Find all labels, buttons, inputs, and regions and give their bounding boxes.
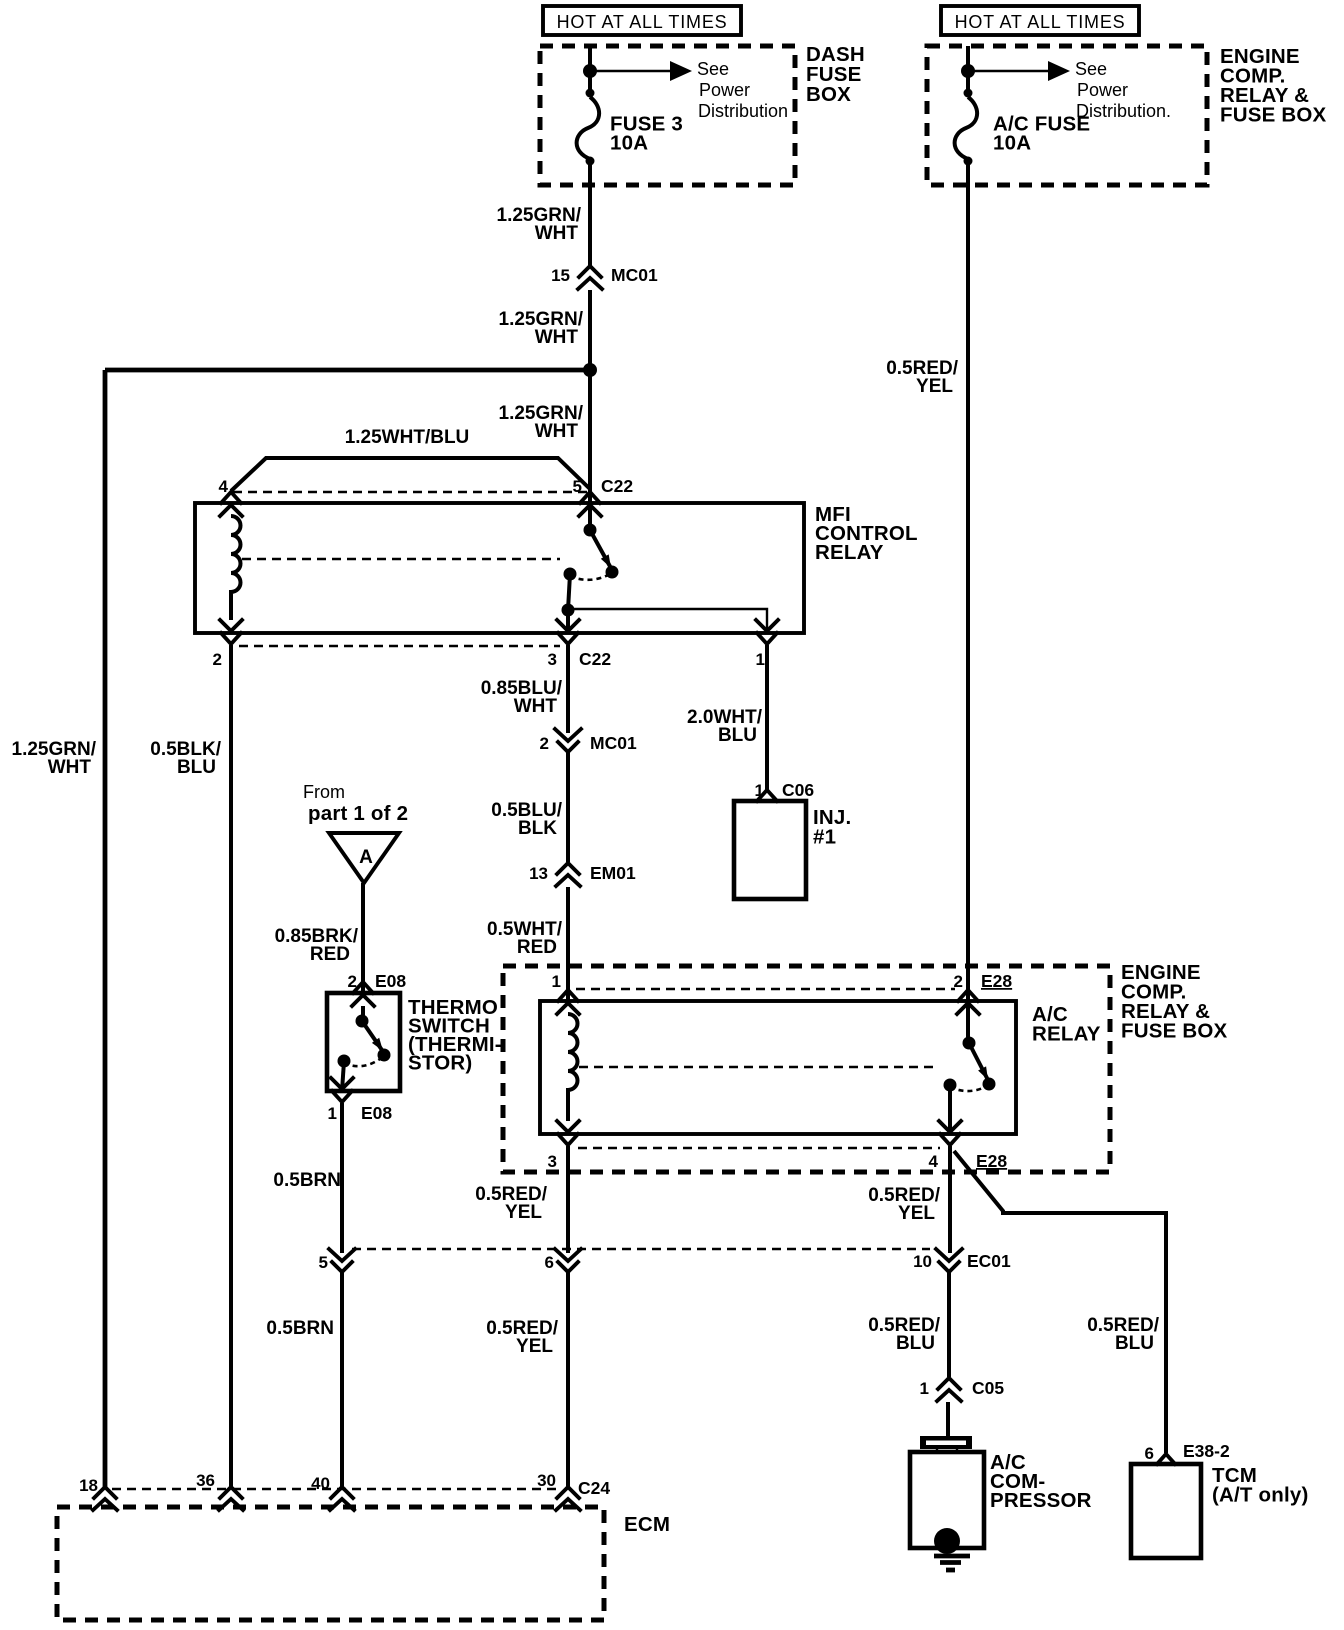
svg-text:EC01: EC01 bbox=[967, 1251, 1011, 1271]
wire 1.25WHT/BLU trapezoid from pin 4 to pin 5 bbox=[231, 458, 590, 491]
svg-text:10A: 10A bbox=[993, 132, 1031, 155]
ground bbox=[934, 1554, 970, 1559]
svg-text:18: 18 bbox=[79, 1476, 98, 1495]
svg-text:YEL: YEL bbox=[516, 1336, 553, 1357]
svg-text:HOT AT ALL TIMES: HOT AT ALL TIMES bbox=[557, 12, 728, 32]
svg-text:Power: Power bbox=[1077, 80, 1128, 100]
svg-text:E28: E28 bbox=[976, 1151, 1007, 1171]
svg-text:3: 3 bbox=[548, 1152, 557, 1171]
wire: pin 2 0.5BLK/BLU down to ECM pin 36 bbox=[229, 645, 233, 1488]
wire: dashed connector line pins 4-5 bbox=[233, 491, 587, 493]
dash fuse box (dashed) bbox=[540, 46, 795, 185]
svg-text:RELAY: RELAY bbox=[1032, 1023, 1101, 1046]
svg-text:1.25WHT/BLU: 1.25WHT/BLU bbox=[345, 427, 470, 448]
pin 3 arrow bbox=[557, 1121, 579, 1145]
wire: dashed actuation line inside relay bbox=[242, 558, 560, 560]
svg-text:E28: E28 bbox=[981, 971, 1012, 991]
label box HOT AT ALL TIMES (right) bbox=[941, 6, 1139, 35]
svg-text:FUSE BOX: FUSE BOX bbox=[1121, 1020, 1228, 1043]
wire: 0.5BRN down to connector 5 bbox=[340, 1103, 344, 1253]
wire: pin 3 0.85BLU/WHT down to MC01 bbox=[566, 645, 570, 733]
svg-text:MC01: MC01 bbox=[590, 733, 637, 753]
svg-text:BLU: BLU bbox=[1115, 1333, 1154, 1354]
wire: pin 3 0.5RED/YEL down to connector 6 bbox=[566, 1146, 570, 1253]
relay box A/C RELAY bbox=[540, 1001, 1016, 1134]
wire: 0.5RED/YEL down to ECM pin 30 bbox=[566, 1272, 570, 1488]
svg-text:E08: E08 bbox=[361, 1103, 392, 1123]
svg-text:ECM: ECM bbox=[624, 1513, 670, 1536]
wire: dashed actuation line inside relay bbox=[579, 1066, 938, 1068]
svg-text:C06: C06 bbox=[782, 780, 814, 800]
wire: battery feed into A/C fuse bbox=[966, 46, 970, 97]
svg-text:BLU: BLU bbox=[177, 757, 216, 778]
svg-text:10: 10 bbox=[913, 1252, 932, 1271]
svg-text:EM01: EM01 bbox=[590, 863, 636, 883]
svg-text:FUSE BOX: FUSE BOX bbox=[1220, 104, 1327, 127]
switch thermo contact bbox=[361, 1006, 365, 1019]
svg-text:10A: 10A bbox=[610, 132, 648, 155]
connector E38-2 pin 6 bbox=[1157, 1454, 1175, 1464]
label box HOT AT ALL TIMES (left) bbox=[543, 6, 741, 35]
svg-text:PRESSOR: PRESSOR bbox=[990, 1489, 1092, 1512]
svg-text:15: 15 bbox=[551, 266, 570, 285]
connector EC01 pin 10 bbox=[936, 1249, 962, 1272]
wire: 0.5BRN down to ECM pin 40 bbox=[340, 1272, 344, 1488]
svg-text:MC01: MC01 bbox=[611, 265, 658, 285]
svg-text:C22: C22 bbox=[579, 649, 611, 669]
connector C06 pin 1 bbox=[757, 790, 777, 801]
wire: 0.5WHT/RED down to A/C relay pin 1 bbox=[566, 887, 570, 1001]
wire: dashed connector line pins 1-2 bbox=[576, 988, 955, 990]
wire: 0.5BLU/BLK down to EM01 bbox=[566, 752, 570, 862]
svg-text:40: 40 bbox=[311, 1474, 330, 1493]
svg-text:C22: C22 bbox=[601, 476, 633, 496]
svg-text:WHT: WHT bbox=[48, 757, 92, 778]
svg-text:YEL: YEL bbox=[898, 1203, 935, 1224]
switch MFI relay contact bbox=[588, 503, 592, 528]
svg-text:From: From bbox=[303, 782, 345, 802]
svg-text:4: 4 bbox=[929, 1152, 939, 1171]
wire: pin 4 0.5RED/YEL down to EC01 bbox=[948, 1146, 952, 1253]
svg-text:13: 13 bbox=[529, 864, 548, 883]
wire: dashed connector line at ECM pins bbox=[112, 1488, 558, 1490]
svg-text:0.5BRN: 0.5BRN bbox=[273, 1170, 341, 1191]
svg-text:36: 36 bbox=[196, 1471, 215, 1490]
svg-text:WHT: WHT bbox=[535, 223, 579, 244]
svg-text:RELAY: RELAY bbox=[815, 541, 884, 564]
connector MC01 pin 2 bbox=[555, 729, 581, 752]
svg-text:(A/T only): (A/T only) bbox=[1212, 1484, 1309, 1507]
svg-text:2: 2 bbox=[213, 650, 222, 669]
svg-text:E08: E08 bbox=[375, 971, 406, 991]
svg-text:0.5BRN: 0.5BRN bbox=[266, 1318, 334, 1339]
pin 18 bbox=[93, 1487, 117, 1510]
wire: dashed connector line 5-6-10 bbox=[352, 1248, 930, 1250]
wire: pin 1 2.0WHT/BLU down to injector bbox=[765, 645, 769, 792]
fuse A/C FUSE 10A bbox=[955, 97, 978, 159]
pin 5 arrow bbox=[579, 492, 601, 516]
module TCM box bbox=[1131, 1464, 1201, 1558]
svg-text:5: 5 bbox=[319, 1253, 328, 1272]
wire: MC01 down to junction node bbox=[588, 290, 592, 503]
svg-text:part 1 of 2: part 1 of 2 bbox=[308, 802, 408, 825]
wire: long horizontal feed to left column bbox=[105, 368, 590, 373]
connector pin 5 bbox=[329, 1249, 355, 1272]
wire: dashed connector line pins 3-4 bbox=[578, 1147, 940, 1149]
pin 2 arrow bbox=[957, 990, 979, 1014]
connector MC01 pin 15 bbox=[578, 266, 602, 289]
pin 4 arrow bbox=[939, 1121, 961, 1145]
svg-text:2: 2 bbox=[540, 734, 549, 753]
svg-text:STOR): STOR) bbox=[408, 1052, 472, 1075]
compressor clutch terminal bar bbox=[920, 1436, 972, 1449]
svg-text:1: 1 bbox=[328, 1104, 337, 1123]
svg-text:BLU: BLU bbox=[896, 1333, 935, 1354]
svg-text:BLU: BLU bbox=[718, 725, 757, 746]
connector C05 pin 1 bbox=[937, 1378, 961, 1401]
svg-text:3: 3 bbox=[548, 650, 557, 669]
node pin 1 E08 bbox=[331, 1078, 353, 1102]
wire: see power distribution arrow bbox=[968, 70, 1050, 72]
wire: branch from pin 4 to TCM bbox=[954, 1151, 1166, 1453]
svg-text:1: 1 bbox=[920, 1379, 929, 1398]
pin 1 arrow bbox=[756, 620, 778, 644]
svg-text:A: A bbox=[359, 847, 373, 868]
engine comp relay &amp; fuse box (dashed, top) bbox=[927, 46, 1207, 185]
svg-text:RED: RED bbox=[310, 944, 350, 965]
svg-text:RED: RED bbox=[517, 937, 557, 958]
node: junction in fuse box bbox=[961, 64, 975, 78]
svg-text:YEL: YEL bbox=[505, 1202, 542, 1223]
wire: dashed connector line pins 2-3 bbox=[239, 645, 560, 647]
fuse FUSE 3 10A bbox=[577, 97, 600, 159]
wire: left column 1.25GRN/WHT down to ECM pin 18 bbox=[103, 370, 108, 1488]
pin 30 C24 bbox=[556, 1487, 580, 1510]
svg-text:YEL: YEL bbox=[916, 376, 953, 397]
relay box MFI CONTROL RELAY bbox=[195, 503, 804, 633]
wire: 0.85BRK/RED down to thermo switch bbox=[361, 883, 365, 993]
svg-text:1: 1 bbox=[552, 972, 561, 991]
svg-text:6: 6 bbox=[1145, 1444, 1154, 1463]
pin 4 arrow bbox=[220, 492, 242, 516]
node: junction in dash fuse box bbox=[583, 64, 597, 78]
svg-text:30: 30 bbox=[537, 1471, 556, 1490]
wire: battery feed into fuse 3 bbox=[588, 46, 592, 97]
engine comp relay box (dashed) bbox=[503, 966, 1110, 1172]
pin 40 bbox=[330, 1487, 354, 1510]
svg-text:E38-2: E38-2 bbox=[1183, 1441, 1230, 1461]
wire: 0.5RED/BLU down to C05 bbox=[947, 1272, 951, 1377]
switch A/C relay contact bbox=[966, 1001, 970, 1041]
svg-text:BLK: BLK bbox=[518, 818, 557, 839]
svg-text:5: 5 bbox=[573, 477, 582, 496]
svg-text:C24: C24 bbox=[578, 1478, 610, 1498]
svg-text:WHT: WHT bbox=[535, 327, 579, 348]
connector EM01 pin 13 bbox=[556, 863, 580, 886]
pin 3 arrow bbox=[557, 620, 579, 644]
svg-text:6: 6 bbox=[545, 1253, 554, 1272]
svg-text:See: See bbox=[697, 59, 729, 79]
svg-text:WHT: WHT bbox=[514, 696, 558, 717]
svg-text:Distribution: Distribution bbox=[698, 101, 788, 121]
svg-text:See: See bbox=[1075, 59, 1107, 79]
wire: 0.5RED/YEL long feed down to A/C relay pin 2 bbox=[966, 159, 970, 1001]
pin 36 bbox=[219, 1487, 243, 1510]
node: junction to pin 1 bbox=[562, 604, 575, 617]
wire: see power distribution arrow bbox=[590, 70, 672, 72]
coil A/C relay bbox=[568, 1014, 578, 1121]
coil MFI relay bbox=[231, 516, 241, 620]
node: main feed junction bbox=[583, 363, 597, 377]
node A: off-page triangle bbox=[329, 833, 399, 883]
svg-text:C05: C05 bbox=[972, 1378, 1004, 1398]
wire: C05 down to compressor bbox=[946, 1402, 950, 1437]
svg-text:WHT: WHT bbox=[535, 421, 579, 442]
svg-text:HOT AT ALL TIMES: HOT AT ALL TIMES bbox=[955, 12, 1126, 32]
svg-text:Power: Power bbox=[699, 80, 750, 100]
svg-text:4: 4 bbox=[219, 477, 229, 496]
wire: fuse 3 output down to MC01 bbox=[588, 159, 592, 266]
svg-text:1: 1 bbox=[756, 650, 765, 669]
thermo switch box bbox=[327, 993, 400, 1091]
pin 2 arrow bbox=[220, 620, 242, 644]
compressor A/C COMPRESSOR box bbox=[910, 1452, 984, 1548]
node: compressor ground terminal bbox=[934, 1528, 960, 1554]
svg-text:1: 1 bbox=[755, 781, 764, 800]
module ECM box (dashed) bbox=[57, 1507, 604, 1620]
svg-text:#1: #1 bbox=[813, 826, 836, 849]
pin 1 arrow bbox=[557, 990, 579, 1014]
injector INJ #1 box bbox=[734, 801, 806, 899]
connector pin 6 bbox=[555, 1249, 581, 1272]
svg-text:BOX: BOX bbox=[806, 83, 851, 106]
